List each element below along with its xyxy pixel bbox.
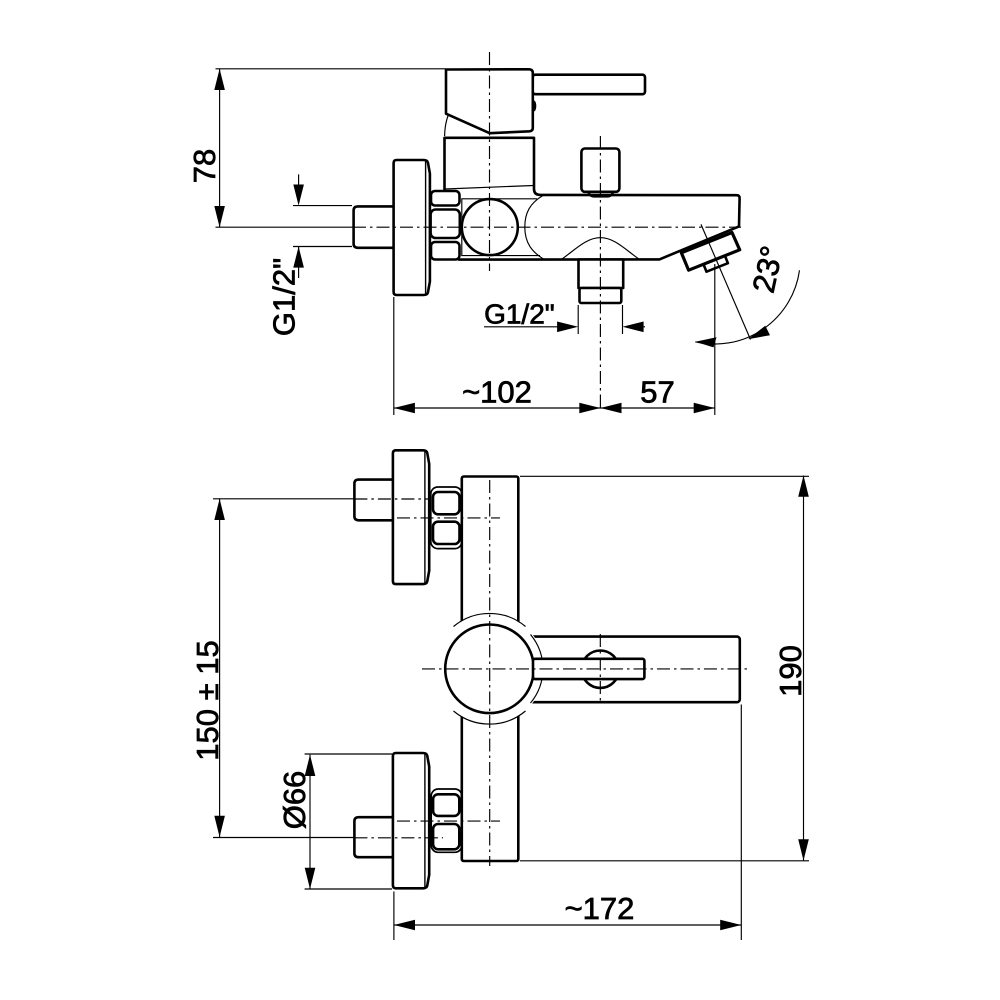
svg-text:78: 78 (187, 149, 222, 183)
arc arrow at vertical line (695, 337, 716, 347)
body waist contour (525, 196, 544, 260)
small circle centerline (599, 634, 601, 704)
bell contour over outlet (561, 238, 639, 260)
cap set screw (532, 101, 537, 112)
flange inner taper line (425, 161, 427, 294)
dim 78 extension line top (216, 68, 447, 70)
flange2 (393, 753, 429, 888)
lever bar (533, 75, 645, 95)
dim ~172 (394, 924, 741, 926)
body column (462, 477, 519, 862)
dim G1/2 left: arrow tails (298, 174, 300, 186)
flange1 (393, 450, 429, 584)
cartridge vertical centerline (489, 52, 491, 271)
arc arrow at slant line (748, 326, 770, 340)
handle cap circle front (445, 625, 534, 714)
arrow right at 600.4 (579, 403, 600, 414)
nut1 band A (433, 492, 460, 514)
dim 190 (803, 476, 805, 861)
dim O66: line (309, 755, 311, 889)
dome fillet arc bottom (454, 711, 526, 724)
dim G1/2 outlet: extension lines (577, 305, 579, 334)
nut2 band A (433, 794, 459, 816)
dim 150+-15: line (219, 499, 221, 837)
hex nut band 3 (431, 242, 460, 260)
pipe1 (354, 480, 393, 521)
nut1 outer (431, 487, 462, 549)
O66 ext lines (305, 753, 392, 755)
arrow down (214, 816, 225, 837)
cartridge recess (462, 199, 540, 256)
svg-text:~172: ~172 (565, 891, 635, 926)
knob neck (589, 192, 613, 197)
column centerline (489, 480, 491, 866)
dim line ~102 (394, 407, 715, 409)
svg-text:G1/2": G1/2" (484, 299, 555, 330)
dim G1/2 left arrow down (293, 185, 304, 206)
svg-text:Ø66: Ø66 (277, 771, 312, 830)
body1 centerline (397, 517, 500, 519)
pipe2 centerline (354, 837, 443, 839)
svg-text:57: 57 (640, 375, 674, 410)
pipe1 centerline (354, 498, 431, 500)
pipe2 (354, 817, 393, 857)
shower outlet lower (580, 288, 622, 303)
dim 78 arrow up (214, 69, 225, 90)
dim 78 arrow down (214, 206, 225, 227)
body shoulder line (445, 186, 534, 190)
svg-text:150 ± 15: 150 ± 15 (190, 640, 225, 760)
hex nut band 1 (431, 191, 460, 206)
dim G1/2 left: extension lines (293, 205, 352, 207)
body outline (445, 138, 740, 260)
body2 centerline (397, 820, 500, 822)
arrow up (214, 499, 225, 520)
lever bar front (533, 659, 644, 679)
shower outlet upper (579, 260, 624, 289)
cartridge circle (462, 199, 518, 255)
23 degree arc (695, 270, 799, 344)
dim 78 line (219, 69, 221, 227)
ext top (to pipe1 centerline) (213, 498, 354, 500)
spout block front (518, 637, 740, 703)
arrow right at 714.8 (694, 403, 715, 414)
dim ~102/57: left extension (393, 297, 395, 415)
knob/outlet centerline (599, 136, 601, 411)
main horizontal centerline (216, 226, 354, 228)
dome arc left (445, 115, 449, 137)
dim G1/2 left arrow up (293, 247, 304, 268)
svg-text:~102: ~102 (462, 375, 532, 410)
arrow left at 600.4 (600, 403, 621, 414)
dome cover (435, 614, 545, 724)
dim G1/2 outlet: right tail+arrow (644, 326, 645, 328)
spout slant axis (701, 224, 751, 339)
arrow left at 393.8 (394, 403, 415, 414)
dim G1/2 outlet: left tail+arrow (484, 326, 558, 328)
lower fig horizontal centerline (422, 668, 748, 670)
ext bottom (to pipe2 centerline) (213, 837, 354, 839)
nut2 outer (431, 789, 462, 852)
wall flange (side) (394, 160, 430, 295)
handle cap (446, 69, 533, 133)
dim ~102/57: right extension + spout outlet axis (714, 264, 716, 415)
diverter small circle (582, 651, 619, 688)
hex nut band 2 (431, 210, 460, 239)
svg-text:190: 190 (773, 645, 808, 697)
inlet pipe (side) (354, 206, 394, 247)
aerator ring (704, 256, 728, 272)
svg-text:G1/2": G1/2" (267, 258, 302, 336)
dome fillet arc right (531, 635, 543, 704)
nut2 band B (433, 824, 459, 849)
nut1 band B (433, 522, 460, 544)
diverter knob (581, 149, 619, 192)
spout aerator housing (681, 233, 739, 271)
dome fillet arc top (454, 613, 526, 626)
